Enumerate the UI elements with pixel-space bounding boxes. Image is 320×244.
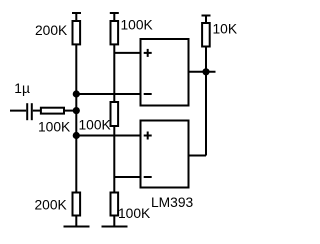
resistor R7 10K pull-up [202,22,238,47]
resistor R4 100K horizontal [38,108,71,135]
svg-text:200K: 200K [35,198,68,213]
power rail terminal (top of R2) [110,13,119,21]
wire to - input of U1 [76,93,140,95]
resistor R5 200K bottom-left [35,193,81,216]
resistor R6 100K bottom-middle [111,193,152,222]
output node dot [202,68,209,75]
power rail terminal (top of R7) [202,16,211,24]
wire to + input of U1 [114,52,140,54]
wire column E [205,47,207,156]
resistor R3 100K middle [79,102,119,133]
svg-text:LM393: LM393 [151,195,194,210]
wire column A [75,44,77,192]
wire R4 to node [64,110,76,112]
svg-text:100K: 100K [121,18,154,33]
svg-text:10K: 10K [213,22,238,37]
resistor R2 100K top-middle [111,18,154,45]
comparator U1 (top, box) [141,39,189,106]
ground rail (below R6) [102,216,128,227]
svg-text:200K: 200K [35,23,68,38]
ground rail (below R5) [64,216,90,227]
svg-text:100K: 100K [118,206,151,221]
svg-text:1µ: 1µ [14,81,30,96]
wire column B lower [113,126,115,193]
comparator U2 (bottom, box) [141,121,194,211]
capacitor C1 1µ [14,81,32,120]
U1 + input marker [144,49,152,57]
resistor R1 200K top-left [35,21,80,44]
wire to + input of U2 [76,135,140,137]
input wire [10,110,26,112]
U2 + input marker [144,132,152,140]
node dot A1 [73,90,80,97]
svg-text:100K: 100K [38,120,71,135]
node dot A3 [73,132,80,139]
power rail terminal (top of R1) [72,13,81,21]
U2 - input marker [144,176,152,178]
U1 output wire [189,71,216,73]
wire cap to R4 [33,110,41,112]
U1 - input marker [144,93,152,95]
node dot A2 [73,107,80,114]
svg-text:100K: 100K [79,118,112,133]
U2 output wire [189,155,207,157]
wire column B upper [113,44,115,102]
wire to - input of U2 [114,176,140,178]
